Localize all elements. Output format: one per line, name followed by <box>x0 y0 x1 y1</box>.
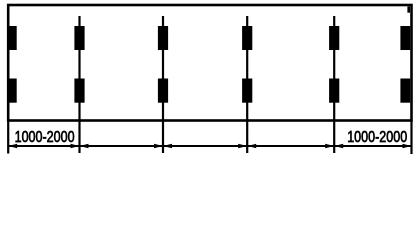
svg-text:1000-2000: 1000-2000 <box>347 129 407 146</box>
svg-text:1000-2000: 1000-2000 <box>15 129 75 146</box>
